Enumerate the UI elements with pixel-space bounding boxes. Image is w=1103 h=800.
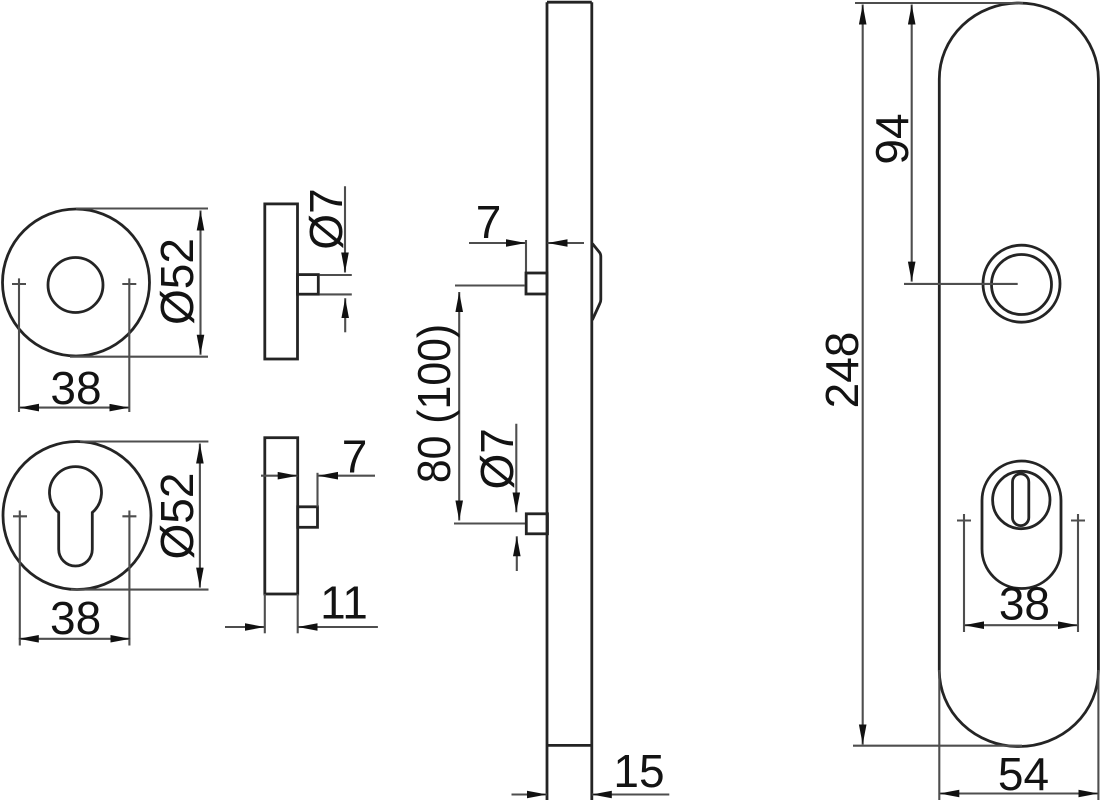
svg-text:54: 54 — [998, 748, 1049, 800]
rosette R1 side view boss — [298, 275, 319, 295]
dimension arrow upper (O7 plate boss) — [515, 424, 517, 513]
rosette R2 outer circle (key rosette front view) — [3, 442, 151, 590]
wire: plate bottom-left extension line — [938, 670, 940, 800]
node: R1 right screw mark + — [122, 278, 136, 412]
long plate side view bottom edge — [547, 744, 592, 747]
plate upper boss (spindle) — [526, 273, 547, 294]
wire: R2 extension line top (diameter) — [80, 440, 208, 442]
dimension line diameter 52 of R1 — [199, 211, 201, 355]
node: plate left screw mark + — [957, 514, 971, 632]
wire: upper boss extension line — [525, 240, 527, 273]
dimension line 38 of R1 — [19, 407, 129, 409]
dimension line 94 — [911, 5, 913, 282]
dimension arrow right (7 boss depth) — [318, 475, 375, 477]
keyway slot — [1013, 474, 1029, 526]
latch bump on plate right edge — [592, 244, 601, 321]
dimension line 80 (100) — [458, 292, 460, 521]
cylinder core circle — [993, 471, 1050, 528]
node: plate right screw mark + — [1071, 514, 1085, 632]
wire: plate top extension line — [855, 2, 1023, 4]
wire: R2 extension line bottom (diameter) — [71, 589, 209, 591]
node: R2 right screw mark + — [122, 511, 136, 646]
wire: plate bottom extension line — [853, 745, 1022, 747]
long plate side view right edge — [590, 2, 593, 800]
wire: leader to handle axis — [904, 283, 1018, 285]
svg-text:Ø52: Ø52 — [151, 238, 203, 325]
wire: boss extension line bottom — [320, 293, 352, 295]
rosette R1 spindle hole — [48, 258, 103, 313]
dimension arrow right (7 plate boss) — [548, 242, 585, 244]
dimension arrow left (7 boss depth) — [261, 475, 298, 477]
dimension line 248 — [862, 5, 864, 745]
plate lower boss (cylinder) — [526, 514, 547, 534]
rosette R2 side view body — [265, 438, 298, 594]
wire: boss extension line top — [320, 274, 352, 276]
wire: R1 extension line bottom (diameter) — [70, 356, 208, 358]
wire: R2 side extension line left — [264, 594, 266, 633]
dimension arrow lower (O7 plate boss) — [516, 536, 518, 571]
dimension line 54 — [939, 792, 1098, 794]
dimension arrow upper (O7 boss) — [344, 186, 346, 272]
svg-text:15: 15 — [613, 745, 664, 797]
svg-text:38: 38 — [50, 362, 101, 414]
dimension line diameter 52 of R2 — [199, 444, 201, 588]
long plate side view top edge — [547, 1, 592, 4]
handle hole inner ring — [992, 255, 1052, 315]
cylinder protection oval — [982, 461, 1061, 589]
wire: plate bottom-right extension line — [1097, 670, 1099, 800]
wire: boss depth extension line — [316, 473, 318, 507]
svg-text:80 (100): 80 (100) — [410, 324, 461, 483]
dimension arrow left (7 plate boss) — [469, 242, 526, 244]
svg-text:38: 38 — [50, 592, 101, 644]
rosette R1 outer circle (front view) — [3, 209, 150, 356]
svg-text:7: 7 — [342, 431, 368, 483]
svg-text:7: 7 — [476, 196, 502, 248]
node: R2 left screw mark + — [13, 511, 27, 646]
wire: axis extension line upper (handle axis) — [455, 284, 525, 286]
svg-text:11: 11 — [320, 577, 368, 629]
svg-text:Ø7: Ø7 — [471, 428, 523, 489]
dimension arrow right (11 thickness) — [298, 626, 378, 628]
dimension arrow left (11 thickness) — [225, 626, 265, 628]
security plate front view outline — [939, 3, 1098, 747]
wire: axis extension line lower (cylinder axis) — [454, 522, 526, 524]
wire: R1 extension line top (diameter) — [76, 207, 208, 209]
handle hole outer ring — [983, 245, 1060, 322]
wire: R2 side extension line right — [297, 594, 299, 633]
svg-text:38: 38 — [999, 578, 1050, 630]
svg-text:94: 94 — [866, 113, 918, 164]
long plate side view left edge — [546, 2, 549, 800]
dimension arrow lower (O7 boss) — [344, 298, 346, 332]
svg-text:Ø7: Ø7 — [300, 188, 352, 249]
rosette R1 side view body — [265, 204, 298, 359]
dimension line 38 (plate screws) — [964, 624, 1078, 626]
dimension line 38 of R2 — [19, 638, 131, 640]
euro profile keyhole of R2 — [50, 467, 102, 566]
rosette R2 side view boss — [298, 507, 318, 528]
node: R1 left screw mark + — [12, 278, 26, 412]
svg-text:Ø52: Ø52 — [151, 473, 203, 560]
dimension arrow right (15 depth) — [592, 793, 670, 795]
dimension arrow left (15 depth) — [512, 793, 548, 795]
svg-text:248: 248 — [816, 332, 868, 409]
